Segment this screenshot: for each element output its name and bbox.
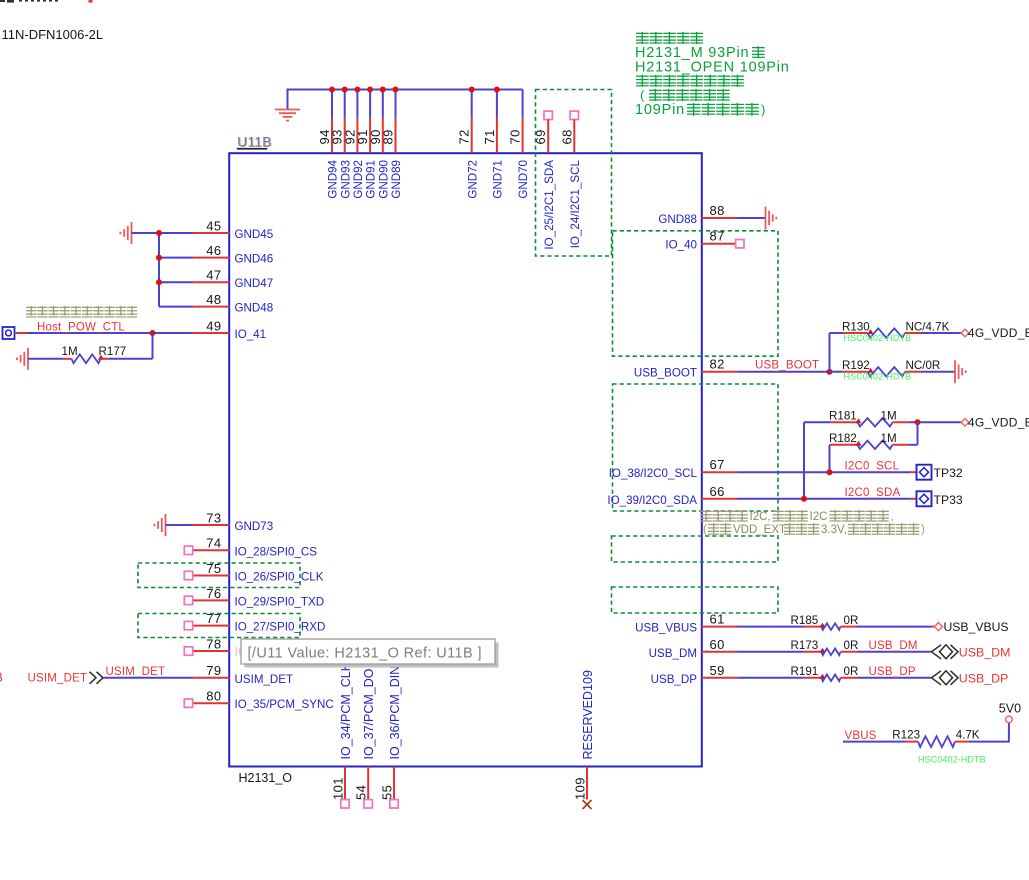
junction pin 93 bbox=[342, 87, 348, 93]
port Host_POW_CTL bbox=[3, 327, 15, 339]
svg-text:68: 68 bbox=[559, 129, 574, 144]
svg-text:GND90: GND90 bbox=[377, 160, 390, 199]
svg-text:1M: 1M bbox=[881, 432, 897, 445]
svg-text:GND45: GND45 bbox=[235, 228, 274, 241]
svg-text:3.3V,: 3.3V, bbox=[821, 524, 847, 536]
junction pin 89 bbox=[393, 87, 399, 93]
junction pin 72 bbox=[469, 87, 475, 93]
svg-text:USB_DP: USB_DP bbox=[959, 671, 1009, 685]
pin 67 stub bbox=[702, 471, 738, 473]
pin 59 stub bbox=[702, 677, 738, 679]
svg-text:GND91: GND91 bbox=[365, 160, 378, 199]
svg-text:R181: R181 bbox=[829, 410, 857, 423]
svg-text:55: 55 bbox=[380, 785, 395, 800]
dashed highlight box empty 1 bbox=[612, 536, 779, 562]
svg-text:11N-DFN1006-2L: 11N-DFN1006-2L bbox=[2, 27, 104, 42]
dashed highlight box pins 69/68 bbox=[536, 90, 612, 257]
pin 92 GND92 wire bbox=[356, 90, 358, 118]
cut-off red mark top bbox=[89, 0, 93, 3]
svg-text:109: 109 bbox=[573, 777, 588, 800]
ground (top) bbox=[275, 109, 300, 111]
svg-text:71: 71 bbox=[482, 129, 497, 144]
wire USIM_DET bbox=[104, 677, 194, 679]
resistor R191 0R bbox=[738, 677, 804, 679]
svg-text:4.7K: 4.7K bbox=[956, 729, 980, 742]
ground (GND88) bbox=[765, 207, 767, 230]
svg-text:61: 61 bbox=[710, 612, 725, 627]
pin 94 GND94 wire bbox=[331, 90, 333, 118]
no-connect square bbox=[184, 596, 192, 604]
svg-text:USB_BOOT: USB_BOOT bbox=[755, 360, 819, 372]
pin 109 stub bbox=[586, 767, 588, 800]
wire to pin 46 bbox=[159, 257, 193, 259]
svg-text:R191: R191 bbox=[791, 665, 819, 678]
junction 46 bbox=[156, 255, 162, 261]
pin 74 stub bbox=[193, 549, 230, 551]
green note line 1 bbox=[636, 32, 649, 44]
svg-text:USB_DP: USB_DP bbox=[651, 673, 698, 686]
svg-text:R130: R130 bbox=[842, 320, 870, 333]
pin 49 stub bbox=[193, 332, 230, 334]
svg-text:70: 70 bbox=[508, 129, 523, 144]
power port USB_VBUS bbox=[935, 623, 943, 631]
resistor R192 NC/0R bbox=[830, 371, 843, 373]
svg-text:): ) bbox=[761, 102, 765, 117]
op-amp / IC U11B body H2131_O bbox=[229, 153, 702, 766]
svg-text:H2131_O: H2131_O bbox=[239, 771, 293, 785]
svg-text:IO_38/I2C0_SCL: IO_38/I2C0_SCL bbox=[609, 467, 698, 480]
pin 55 stub bbox=[393, 767, 395, 800]
svg-text:USIM_DET: USIM_DET bbox=[106, 666, 166, 678]
junction USB_BOOT bbox=[827, 369, 833, 375]
svg-text:GND73: GND73 bbox=[235, 520, 274, 533]
junction pin 94 bbox=[329, 87, 335, 93]
svg-text:74: 74 bbox=[206, 536, 221, 551]
no-connect square pin 69 bbox=[544, 111, 552, 119]
wire R181 down to SDA bbox=[803, 422, 805, 499]
svg-text:USB_DP: USB_DP bbox=[869, 666, 916, 678]
svg-text:72: 72 bbox=[457, 129, 472, 144]
svg-text:109Pin: 109Pin bbox=[635, 102, 685, 118]
svg-text:RESERVED109: RESERVED109 bbox=[581, 670, 595, 759]
pin 101 stub bbox=[344, 767, 346, 800]
svg-text:IO_39/I2C0_SDA: IO_39/I2C0_SDA bbox=[607, 494, 697, 507]
resistor R185 0R bbox=[738, 626, 804, 628]
junction SDA bbox=[801, 496, 807, 502]
svg-text:IO_28/SPI0_CS: IO_28/SPI0_CS bbox=[235, 545, 318, 558]
wire USB_BOOT bbox=[738, 371, 830, 373]
pin 80 stub bbox=[193, 702, 230, 704]
svg-text:): ) bbox=[921, 524, 925, 536]
svg-text:59: 59 bbox=[710, 663, 725, 678]
svg-text:USB_DM: USB_DM bbox=[649, 647, 697, 660]
wire bus top horizontal bbox=[288, 89, 523, 91]
svg-text:B: B bbox=[0, 670, 3, 684]
junction R181/R182 bbox=[915, 419, 921, 425]
dashed highlight box pins 67/66 bbox=[613, 384, 779, 511]
svg-text:,: , bbox=[891, 511, 894, 523]
no-connect square bbox=[184, 571, 192, 579]
svg-text:IO_35/PCM_SYNC: IO_35/PCM_SYNC bbox=[235, 698, 334, 711]
pin 91 GND91 wire bbox=[369, 90, 371, 118]
wire vertical junction column bbox=[158, 232, 160, 307]
svg-text:I2C0_SCL: I2C0_SCL bbox=[845, 460, 900, 472]
pin 73 stub bbox=[193, 524, 230, 526]
svg-text:46: 46 bbox=[206, 243, 221, 258]
svg-text:(: ( bbox=[640, 88, 645, 103]
wire R182 up bbox=[917, 422, 919, 445]
wire Host_POW_CTL bbox=[27, 332, 193, 334]
pin 93 GND93 wire bbox=[344, 90, 346, 118]
resistor R130 NC/4.7K bbox=[830, 332, 843, 334]
green note line 4 bbox=[636, 75, 649, 87]
svg-text:GND70: GND70 bbox=[517, 160, 530, 199]
svg-text:[/U11 Value: H2131_O Ref: U11B: [/U11 Value: H2131_O Ref: U11B ] bbox=[248, 646, 482, 662]
no-connect square bbox=[364, 800, 372, 808]
wire to pin 48 bbox=[159, 306, 193, 308]
svg-text:USB_BOOT: USB_BOOT bbox=[634, 367, 697, 380]
svg-text:73: 73 bbox=[206, 510, 221, 525]
pin 70 GND70 wire bbox=[522, 90, 524, 118]
no-connect square bbox=[184, 621, 192, 629]
pin 68 IO_24/I2C1_SCL stub bbox=[573, 120, 575, 153]
svg-text:88: 88 bbox=[710, 203, 725, 218]
test point TP33 bbox=[917, 491, 932, 506]
resistor R181 1M bbox=[804, 421, 830, 423]
svg-text:R182: R182 bbox=[829, 432, 857, 445]
svg-text:GND89: GND89 bbox=[390, 160, 403, 199]
svg-text:HSC0402-HDTB: HSC0402-HDTB bbox=[918, 755, 986, 765]
svg-text:GND72: GND72 bbox=[466, 160, 479, 199]
power port 4G_VDD_E (2) bbox=[961, 419, 969, 427]
svg-text:NC/4.7K: NC/4.7K bbox=[906, 320, 950, 333]
svg-text:IO_40: IO_40 bbox=[665, 239, 697, 252]
svg-text:IO_24/I2C1_SCL: IO_24/I2C1_SCL bbox=[569, 159, 582, 248]
wire GND88 bbox=[738, 217, 766, 219]
svg-text:49: 49 bbox=[206, 318, 221, 333]
svg-text:1M: 1M bbox=[881, 410, 897, 423]
svg-text:GND93: GND93 bbox=[339, 160, 352, 199]
svg-text:IO_41: IO_41 bbox=[235, 328, 267, 341]
wire ground to junction bbox=[132, 232, 160, 234]
ground (R192) bbox=[954, 360, 956, 383]
svg-text:(: ( bbox=[703, 524, 707, 536]
no-connect square bbox=[341, 800, 349, 808]
svg-text:79: 79 bbox=[206, 663, 221, 678]
svg-text:67: 67 bbox=[710, 457, 725, 472]
svg-text:IO_27/SPI0_RXD: IO_27/SPI0_RXD bbox=[235, 621, 326, 634]
svg-text:0R: 0R bbox=[844, 665, 859, 678]
offpage port USB_DP bbox=[932, 671, 942, 685]
no-connect square pin 87 bbox=[736, 240, 744, 248]
svg-text:R177: R177 bbox=[99, 345, 127, 358]
svg-text:60: 60 bbox=[710, 637, 725, 652]
dashed highlight box pin 87 bbox=[613, 231, 779, 356]
svg-text:GND46: GND46 bbox=[235, 253, 274, 266]
wire down to ground bbox=[287, 89, 289, 110]
ground (R177) bbox=[27, 348, 29, 370]
pin 72 GND72 wire bbox=[471, 90, 473, 118]
svg-text:USIM_DET: USIM_DET bbox=[28, 672, 88, 684]
junction pin 91 bbox=[367, 87, 373, 93]
junction pin 71 bbox=[494, 87, 500, 93]
svg-text:USB_VBUS: USB_VBUS bbox=[635, 622, 697, 635]
svg-text:GND47: GND47 bbox=[235, 277, 274, 290]
pin 45 stub bbox=[193, 232, 230, 234]
svg-text:82: 82 bbox=[710, 357, 725, 372]
resistor R123 4.7K bbox=[843, 741, 906, 743]
svg-text:USB_VBUS: USB_VBUS bbox=[944, 620, 1009, 634]
test point TP32 bbox=[917, 465, 932, 480]
svg-text:HSC0402-HDTB: HSC0402-HDTB bbox=[844, 333, 912, 343]
svg-text:H2131_OPEN 109Pin: H2131_OPEN 109Pin bbox=[635, 59, 790, 75]
tooltip shadow bbox=[245, 643, 499, 668]
no-connect cross pin 109 bbox=[583, 800, 592, 809]
svg-text:R173: R173 bbox=[791, 639, 819, 652]
pin 82 stub bbox=[702, 371, 738, 373]
no-connect square pin 68 bbox=[570, 111, 578, 119]
svg-text:89: 89 bbox=[381, 129, 396, 144]
svg-text:47: 47 bbox=[206, 268, 221, 283]
ground (GND73) bbox=[165, 514, 167, 536]
junction 45 bbox=[156, 230, 162, 236]
svg-text:USB_DM: USB_DM bbox=[959, 645, 1011, 659]
svg-text:USIM_DET: USIM_DET bbox=[235, 673, 294, 686]
junction pin 49 bbox=[150, 330, 156, 336]
pin 60 stub bbox=[702, 651, 738, 653]
svg-text:IO_34/PCM_CLK: IO_34/PCM_CLK bbox=[339, 662, 353, 759]
svg-text:TP33: TP33 bbox=[934, 493, 963, 507]
svg-text:101: 101 bbox=[331, 777, 346, 800]
cut-off text fragment top-left bbox=[0, 0, 58, 3]
power port 4G_VDD_E bbox=[961, 329, 969, 337]
resistor R177 1M bbox=[28, 358, 63, 360]
pin 47 stub bbox=[193, 281, 230, 283]
svg-text:45: 45 bbox=[206, 218, 221, 233]
svg-text:78: 78 bbox=[206, 636, 221, 651]
no-connect square bbox=[184, 647, 192, 655]
svg-text:R123: R123 bbox=[892, 729, 920, 742]
junction 47 bbox=[156, 279, 162, 285]
pin 90 GND90 wire bbox=[382, 90, 384, 118]
no-connect square bbox=[184, 546, 192, 554]
svg-text:87: 87 bbox=[710, 229, 725, 244]
resistor R182 1M bbox=[830, 444, 858, 446]
svg-text:NC/0R: NC/0R bbox=[906, 359, 941, 372]
svg-text:IO_29/SPI0_TXD: IO_29/SPI0_TXD bbox=[235, 595, 325, 608]
pin 69 IO_25/I2C1_SDA stub bbox=[547, 120, 549, 153]
svg-text:66: 66 bbox=[710, 484, 725, 499]
junction SCL bbox=[827, 469, 833, 475]
svg-text:IO_36/PCM_DIN: IO_36/PCM_DIN bbox=[388, 666, 402, 760]
svg-text:GND48: GND48 bbox=[235, 302, 274, 315]
svg-text:GND94: GND94 bbox=[327, 159, 340, 198]
pin 78 stub bbox=[193, 650, 230, 652]
resistor R173 0R bbox=[738, 651, 804, 653]
svg-text:80: 80 bbox=[206, 689, 221, 704]
svg-text:I2C,: I2C, bbox=[750, 511, 771, 523]
pin 77 stub bbox=[193, 625, 230, 627]
svg-text:I2C: I2C bbox=[810, 511, 828, 523]
svg-text:1M: 1M bbox=[62, 345, 78, 358]
pin 87 stub bbox=[702, 243, 738, 245]
dashed highlight box pin 77 bbox=[138, 614, 300, 638]
svg-text:GND88: GND88 bbox=[658, 213, 697, 226]
pin 66 stub bbox=[702, 498, 738, 500]
no-connect square bbox=[184, 699, 192, 707]
pin 76 stub bbox=[193, 599, 230, 601]
wire to pin 45 bbox=[159, 232, 193, 234]
ground (GND45 cluster) bbox=[131, 222, 133, 244]
svg-text:4G_VDD_E: 4G_VDD_E bbox=[968, 415, 1029, 429]
port chevron >> bbox=[90, 672, 97, 684]
wire GND73 bbox=[166, 524, 194, 526]
wire R182 down to SCL bbox=[829, 445, 831, 472]
tooltip box bbox=[241, 639, 495, 664]
dashed highlight box pin 75 bbox=[138, 563, 300, 588]
wire up to 5V0 bbox=[1008, 723, 1010, 743]
svg-text:Host_POW_CTL: Host_POW_CTL bbox=[37, 321, 125, 333]
svg-text:HSC0402-HDTB: HSC0402-HDTB bbox=[844, 372, 912, 382]
svg-text:TP32: TP32 bbox=[934, 466, 963, 480]
power port 5V0 bbox=[1006, 716, 1013, 723]
svg-text:VDD_EXT: VDD_EXT bbox=[733, 524, 786, 536]
svg-text:GND71: GND71 bbox=[492, 160, 505, 199]
svg-text:R185: R185 bbox=[791, 614, 819, 627]
svg-text:VBUS: VBUS bbox=[845, 730, 877, 742]
wire I2C0_SDA bbox=[738, 498, 911, 500]
wire up to R130 bbox=[829, 333, 831, 372]
svg-text:48: 48 bbox=[206, 292, 221, 307]
pin 88 stub bbox=[702, 217, 738, 219]
pin 54 stub bbox=[367, 767, 369, 800]
svg-text:U11B: U11B bbox=[237, 135, 271, 150]
pin 71 GND71 wire bbox=[496, 90, 498, 118]
offpage port USB_DM bbox=[932, 645, 942, 659]
svg-text:IO_26/SPI0_CLK: IO_26/SPI0_CLK bbox=[235, 571, 324, 584]
svg-text:5V0: 5V0 bbox=[999, 701, 1021, 715]
pin 46 stub bbox=[193, 257, 230, 259]
svg-text:IO_37/PCM_DOU: IO_37/PCM_DOU bbox=[362, 659, 376, 759]
wire down to R177 bbox=[152, 333, 154, 359]
note text (olive) bbox=[26, 306, 36, 318]
note text I2C (olive) line 1 bbox=[701, 510, 712, 522]
svg-text:I2C0_SDA: I2C0_SDA bbox=[845, 487, 901, 499]
wire port stub bbox=[15, 332, 28, 334]
svg-text:0R: 0R bbox=[844, 614, 859, 627]
svg-text:USB_DM: USB_DM bbox=[869, 640, 918, 652]
pin 48 stub bbox=[193, 306, 230, 308]
wire I2C0_SCL bbox=[738, 471, 911, 473]
pin 75 stub bbox=[193, 575, 230, 577]
wire to pin 47 bbox=[159, 281, 193, 283]
svg-text:GND92: GND92 bbox=[352, 160, 365, 199]
junction pin 92 bbox=[354, 87, 360, 93]
dashed highlight box empty 2 bbox=[612, 587, 779, 613]
svg-text:54: 54 bbox=[354, 785, 369, 800]
no-connect square bbox=[390, 800, 398, 808]
svg-text:IO_25/I2C1_SDA: IO_25/I2C1_SDA bbox=[543, 160, 556, 250]
svg-text:0R: 0R bbox=[844, 639, 859, 652]
pin 61 stub bbox=[702, 626, 738, 628]
pin 89 GND89 wire bbox=[395, 90, 397, 118]
svg-text:4G_VDD_E: 4G_VDD_E bbox=[968, 326, 1029, 340]
svg-text:R192: R192 bbox=[842, 359, 870, 372]
junction pin 90 bbox=[380, 87, 386, 93]
pin 79 stub bbox=[193, 677, 230, 679]
